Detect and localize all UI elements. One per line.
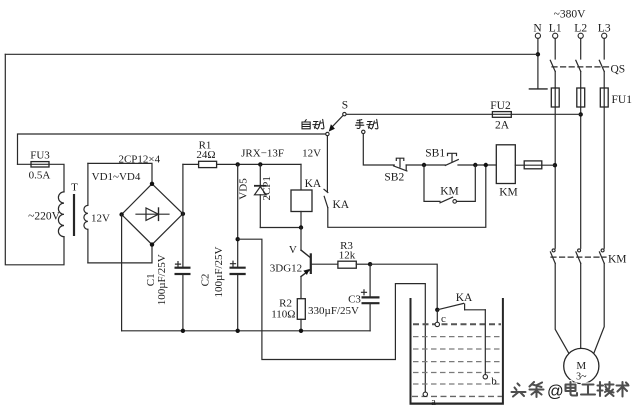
wire base to R3 <box>312 263 338 265</box>
svg-text:a: a <box>431 396 436 408</box>
svg-text:VD5: VD5 <box>238 178 250 200</box>
wire L3 to motor <box>594 263 604 353</box>
wire left edge down to transformer primary bottom <box>5 54 64 264</box>
water line 3 <box>413 348 501 350</box>
neutral terminal bar <box>529 88 547 90</box>
svg-text:KM: KM <box>440 186 459 198</box>
svg-text:3DG12: 3DG12 <box>270 263 302 275</box>
terminal L1 <box>553 33 558 38</box>
QS linkage dashed <box>552 66 609 68</box>
svg-text:KA: KA <box>305 178 322 190</box>
water line 5 <box>413 372 501 374</box>
switch QS pole L2 <box>576 38 581 88</box>
water line 6 <box>413 383 501 385</box>
watermark at-sign <box>547 383 564 401</box>
resistor R3 <box>338 261 356 268</box>
node bus R2 <box>299 329 303 333</box>
electrode c terminal <box>435 322 439 326</box>
svg-text:~220V: ~220V <box>28 211 60 223</box>
watermark dian <box>566 382 578 396</box>
node N junction <box>536 52 540 56</box>
diode VD5 2CP1 <box>254 164 267 227</box>
water line 2 <box>413 336 501 338</box>
node bridge bottom <box>150 242 154 246</box>
transformer T secondary winding <box>84 163 88 263</box>
relay coil KA <box>291 190 312 212</box>
water line 4 <box>413 361 501 363</box>
contactor coil KM <box>496 145 515 184</box>
node bus C1 <box>181 329 185 333</box>
svg-text:100µF/25V: 100µF/25V <box>156 254 168 305</box>
svg-text:KM: KM <box>608 254 627 266</box>
wire secondary top to bridge <box>88 163 152 183</box>
watermark shu <box>617 382 629 397</box>
resistor R2 <box>297 299 305 320</box>
svg-text:0.5A: 0.5A <box>29 170 51 182</box>
svg-text:3~: 3~ <box>576 372 587 383</box>
svg-text:V: V <box>289 244 297 256</box>
wire N horizontal to left edge <box>5 53 538 55</box>
svg-text:S: S <box>342 100 348 112</box>
fuse FU3 <box>31 162 49 167</box>
wire SB1 to KM coil <box>458 164 496 166</box>
wire L1 below QS <box>554 88 556 248</box>
svg-text:2CP1: 2CP1 <box>261 176 273 200</box>
svg-text:T: T <box>71 182 78 194</box>
svg-text:FU2: FU2 <box>490 100 511 112</box>
label auto (zidong) <box>302 119 324 129</box>
capacitor C3 <box>362 264 380 331</box>
switch QS pole L3 <box>599 38 604 88</box>
svg-text:KM: KM <box>499 187 518 199</box>
svg-text:24Ω: 24Ω <box>196 149 215 161</box>
node KA-branch junction <box>484 163 488 167</box>
svg-text:SB2: SB2 <box>384 172 404 184</box>
svg-text:M: M <box>576 360 586 372</box>
wire KM coil to L1 <box>515 164 555 166</box>
svg-text:b: b <box>491 376 497 388</box>
wire L3 below QS <box>603 88 605 248</box>
svg-text:110Ω: 110Ω <box>271 309 295 321</box>
svg-text:100µF/25V: 100µF/25V <box>213 246 225 297</box>
pushbutton SB1 <box>445 153 458 165</box>
svg-text:12k: 12k <box>339 250 356 262</box>
wire auto contact to FU3 branch <box>18 134 326 164</box>
wire S common to FU2 <box>346 113 581 115</box>
positive rail with R1 <box>183 163 301 165</box>
resistor R1 <box>199 161 217 167</box>
svg-text:330µF/25V: 330µF/25V <box>308 305 359 317</box>
terminal L2 <box>578 33 583 38</box>
wire bridge right corner up to rail and down through C1 <box>182 164 184 330</box>
node rail C2 tap <box>236 162 240 166</box>
wire through FU3 <box>18 164 65 192</box>
svg-text:@: @ <box>547 383 564 401</box>
svg-text:2A: 2A <box>495 120 510 132</box>
terminal N <box>535 33 540 38</box>
node tank KA junction <box>435 308 439 312</box>
node manual contact <box>362 130 365 133</box>
bridge rectifier VD1-VD4 <box>122 184 183 245</box>
node R3 output <box>368 262 372 266</box>
terminal L3 <box>602 33 607 38</box>
wire R3 to node <box>356 263 370 265</box>
svg-text:12V: 12V <box>91 213 110 225</box>
negative bus <box>122 330 371 332</box>
fuse FU1 pole L3 <box>600 88 608 107</box>
wire manual contact to SB2 <box>363 134 394 165</box>
wire VD5 to KA coil bottom <box>260 227 301 229</box>
water level line a <box>412 395 502 397</box>
contactor KM main contact L1 <box>550 249 555 263</box>
svg-text:2CP12×4: 2CP12×4 <box>118 154 160 166</box>
wire L2 below QS <box>580 88 582 248</box>
svg-text:c: c <box>441 313 446 325</box>
relay contact KA control <box>324 136 328 208</box>
wire R2 to bus <box>300 319 302 331</box>
wire L2 to motor <box>580 263 582 348</box>
svg-text:12V: 12V <box>302 148 321 160</box>
fuse FU1 pole L2 <box>577 88 585 107</box>
node C2 electrode-a tap <box>236 237 240 241</box>
KM main linkage dashed <box>551 256 606 258</box>
node bridge right <box>181 212 185 216</box>
electrode b terminal <box>483 375 487 379</box>
wire rail to KA coil <box>300 164 302 190</box>
transformer core <box>73 194 75 236</box>
capacitor C1 <box>175 262 191 274</box>
node SB branch junction <box>422 163 426 167</box>
node KM-aux return junction <box>473 163 477 167</box>
svg-text:C2: C2 <box>199 274 211 287</box>
fuse FU1 pole L1 <box>551 88 559 107</box>
svg-text:JRX−13F: JRX−13F <box>241 148 284 160</box>
node bridge top <box>150 182 154 186</box>
svg-text:QS: QS <box>611 64 626 76</box>
svg-text:~380V: ~380V <box>554 9 586 21</box>
node L1-KM coil junction <box>553 163 557 167</box>
svg-text:FU1: FU1 <box>612 94 633 106</box>
water tank <box>410 298 504 404</box>
wire L1 to motor <box>555 263 569 353</box>
svg-text:C3: C3 <box>348 294 361 306</box>
electrode a terminal <box>423 392 427 396</box>
svg-text:FU3: FU3 <box>30 150 50 162</box>
contactor KM main contact L3 <box>599 249 604 263</box>
contact KM auxiliary self-hold <box>424 165 475 203</box>
node rail VD5 tap <box>258 162 262 166</box>
water level line c <box>413 323 501 325</box>
wire KA contact to KM branch <box>328 165 486 227</box>
node auto contact <box>326 132 329 135</box>
transistor V 3DG12 <box>301 228 311 299</box>
wire R3 node to tank KA contact <box>370 264 437 310</box>
svg-text:KA: KA <box>333 199 350 211</box>
label manual (shoudong) <box>356 119 378 129</box>
wire SB2 to SB1 <box>406 164 445 166</box>
node bridge left <box>119 212 123 216</box>
wire positive tap to electrode a <box>238 239 426 392</box>
electrode c wire <box>436 310 438 322</box>
fuse in KM coil line <box>524 161 542 169</box>
switch QS pole L1 <box>550 38 555 88</box>
wire secondary bottom to bridge <box>88 245 152 263</box>
wire C2 branch <box>237 164 239 330</box>
svg-text:KA: KA <box>456 292 473 304</box>
capacitor C2 <box>230 261 246 274</box>
svg-text:VD1~VD4: VD1~VD4 <box>92 171 141 183</box>
wire bridge left corner to negative bus <box>121 215 123 331</box>
switch S common terminal <box>343 112 346 115</box>
motor M <box>564 348 599 383</box>
electrode b wire <box>484 310 486 375</box>
node L2-FU2 junction <box>579 112 583 116</box>
wire N vertical <box>537 38 539 89</box>
watermark gong <box>581 385 595 395</box>
fuse FU2 <box>492 112 511 118</box>
switch S blade with arrow <box>329 116 343 132</box>
transformer T primary winding <box>58 192 64 237</box>
wire KA coil to collector node <box>300 212 302 228</box>
node bus C2 <box>236 329 240 333</box>
contactor KM main contact L2 <box>576 249 581 263</box>
node collector junction <box>299 225 303 229</box>
relay contact KA tank <box>437 303 485 309</box>
watermark toutiao <box>512 382 544 397</box>
pushbutton SB2 <box>394 158 407 171</box>
watermark ji <box>598 382 614 396</box>
svg-text:SB1: SB1 <box>425 148 445 160</box>
